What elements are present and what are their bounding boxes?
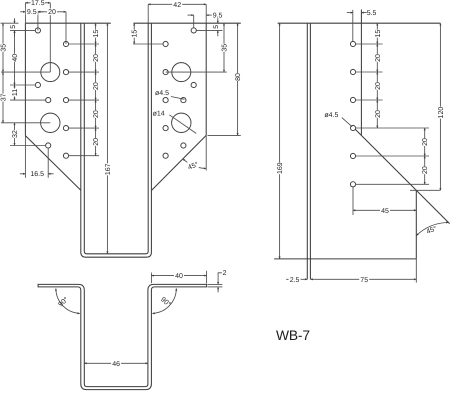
big hole 1 middle (172, 63, 191, 82)
dim 169 (279, 23, 281, 259)
side dim col 15,20,20,20 (376, 23, 378, 44)
svg-text:2: 2 (223, 270, 227, 277)
svg-text:20: 20 (375, 82, 382, 90)
dim 20 top (65, 12, 67, 44)
dim 40 bottom (150, 273, 152, 284)
dim 32 left inner (10, 145, 46, 147)
big hole 2 (41, 113, 60, 132)
svg-text:167: 167 (105, 163, 112, 175)
hole side row5 (350, 153, 355, 158)
svg-text:5.5: 5.5 (367, 10, 377, 17)
hole colC row2 (46, 143, 51, 148)
dim 5 left inner (10, 29, 35, 31)
dim 9.5 middle (193, 15, 195, 28)
hole side row3 (350, 97, 355, 102)
svg-text:75: 75 (360, 277, 368, 284)
U left inner wall / left plate right edge (84, 23, 148, 254)
dim 5.5 side (352, 10, 354, 42)
hole colB row2 (63, 70, 68, 75)
dim 42 (147, 4, 149, 23)
side right edge upper (360, 10, 362, 136)
hole colC' row2 (181, 143, 186, 148)
svg-text:37: 37 (0, 93, 7, 101)
svg-text:15: 15 (375, 30, 382, 38)
svg-text:9.5: 9.5 (27, 9, 37, 16)
hole colB' row3 (163, 98, 168, 103)
dim 37 left outer (1, 122, 50, 124)
left plate top edge + tick overshoot (25, 22, 110, 24)
BOTTOM VIEW channel profile (38, 284, 207, 389)
svg-text:11: 11 (12, 89, 19, 96)
hole side row1 (350, 41, 355, 46)
svg-text:35: 35 (0, 44, 7, 52)
dim 167 (106, 23, 108, 254)
hole colA row2 (35, 82, 40, 87)
svg-text:42: 42 (173, 2, 181, 9)
hole colB row4 (63, 126, 68, 131)
hole colB row3 (63, 98, 68, 103)
hole colC row1 (46, 98, 51, 103)
dim 80 middle (208, 134, 241, 136)
svg-text:WB-7: WB-7 (276, 328, 310, 343)
svg-text:ø4.5: ø4.5 (324, 112, 338, 119)
dim 5 middle (196, 29, 222, 31)
top edge left tick (1, 22, 19, 24)
middle plate top edge + tick overshoots (133, 22, 240, 24)
back plate front line (306, 23, 308, 279)
dim 75 side (415, 259, 417, 283)
svg-text:20: 20 (422, 166, 429, 174)
dim 46 bottom (84, 362, 148, 364)
hole side row6 (350, 182, 355, 187)
left plate left edge (24, 23, 26, 135)
U left outer wall (81, 23, 152, 257)
svg-text:20: 20 (93, 138, 100, 146)
side 45 deg diagonal (overshoots both ends) (355, 129, 449, 223)
svg-text:20: 20 (93, 54, 100, 62)
hole colA' row1 (191, 28, 196, 33)
hole colB row1 (63, 41, 68, 46)
hole colB' row4 (163, 126, 168, 131)
side row ticks (356, 43, 383, 45)
dim 9.5 (37, 12, 39, 31)
svg-text:ø4.5: ø4.5 (155, 90, 169, 97)
svg-text:20: 20 (93, 110, 100, 118)
svg-text:120: 120 (438, 107, 445, 119)
back plate rear line (309, 23, 311, 279)
svg-text:40: 40 (175, 273, 183, 280)
dim 11 left inner (10, 99, 46, 101)
big hole 2 middle (o14) (172, 113, 191, 132)
svg-text:15: 15 (93, 30, 100, 38)
dim 2.5 side (286, 278, 307, 280)
45 deg annotation middle (205, 135, 207, 170)
svg-text:20: 20 (93, 82, 100, 90)
svg-text:5: 5 (213, 25, 220, 29)
svg-text:32: 32 (12, 130, 19, 138)
side right edge lower (415, 190, 417, 259)
svg-text:35: 35 (221, 44, 228, 52)
right dim column 15,20x4 (69, 43, 99, 45)
svg-text:16.5: 16.5 (30, 171, 44, 178)
side top edge (278, 22, 441, 24)
svg-text:20: 20 (375, 54, 382, 62)
hole colC' row1 (o4.5) (181, 98, 186, 103)
side corner tick (410, 189, 440, 191)
big hole 1 (41, 63, 60, 82)
dim 40 left inner (10, 84, 35, 86)
svg-text:169: 169 (277, 162, 284, 174)
svg-text:ø14: ø14 (153, 111, 165, 118)
dim 35 middle (166, 71, 227, 73)
svg-text:20: 20 (422, 138, 429, 146)
45 deg annotation side (416, 222, 448, 235)
svg-text:80: 80 (235, 73, 242, 81)
svg-text:2.5: 2.5 (290, 277, 300, 284)
hole colB' row5 (163, 153, 168, 158)
dim 17.5 (24, 3, 26, 23)
svg-text:17.5: 17.5 (31, 0, 45, 7)
dim 120 (439, 23, 441, 190)
dim 2 bottom (208, 283, 223, 285)
90 deg annotation left (56, 288, 80, 313)
hole colA' row2 (191, 82, 196, 87)
svg-text:5: 5 (10, 25, 17, 29)
dim 15 middle left (133, 43, 163, 45)
hole colB' row2 (163, 70, 168, 75)
dim 16.5 (24, 136, 26, 178)
svg-text:40: 40 (12, 54, 19, 62)
middle plate right edge (205, 23, 207, 135)
svg-text:46: 46 (112, 361, 120, 368)
svg-text:20: 20 (48, 9, 56, 16)
svg-text:45: 45 (381, 208, 389, 215)
hole side row2 (350, 69, 355, 74)
hole side row4 (350, 125, 355, 130)
left plate diagonal cut (25, 136, 80, 191)
90 deg annotation right (152, 288, 176, 313)
side right dim col 20,20 (424, 128, 426, 156)
hole colB' row1 (163, 41, 168, 46)
dim 45 side (352, 187, 354, 215)
dim 35 left outer (1, 71, 50, 73)
side bottom edge (274, 258, 416, 260)
svg-text:20: 20 (375, 110, 382, 118)
hole colA row1 (35, 28, 40, 33)
svg-text:15: 15 (132, 30, 139, 38)
middle plate diagonal cut (151, 135, 206, 190)
hole colB row5 (63, 153, 68, 158)
